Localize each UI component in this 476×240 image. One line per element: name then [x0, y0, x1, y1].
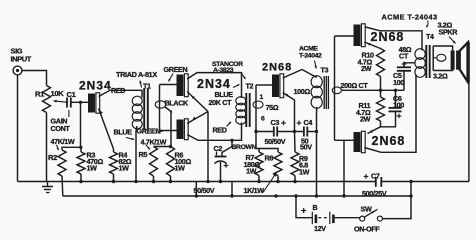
svg-text:100: 100 [393, 78, 404, 87]
svg-text:2N68: 2N68 [372, 134, 406, 148]
wire secondary bottom return to rail B [343, 140, 345, 196]
svg-text:T4: T4 [426, 32, 434, 41]
wire jack shield down to ground rail [17, 75, 19, 182]
speaker 3.2 ohm [451, 51, 455, 70]
Q5 emitter with arrow to R10 [364, 42, 380, 49]
svg-text:BLUE: BLUE [114, 128, 133, 137]
svg-text:T3: T3 [321, 66, 329, 75]
wire T2 secondary top to Q4 base [256, 84, 272, 86]
Q6 collector to T4 primary bottom [364, 75, 416, 153]
node base bias junction [79, 146, 82, 149]
wire C2 tap from Q3 collector line [230, 139, 233, 142]
wire T1 primary bottom BLUE down to rail [136, 126, 137, 182]
svg-text:R8: R8 [265, 153, 274, 162]
svg-text:R5: R5 [139, 150, 148, 159]
svg-text:10K: 10K [51, 89, 65, 98]
svg-text:RED: RED [213, 126, 227, 135]
wire speaker return down right edge [468, 82, 470, 182]
wire R5/R6 tops [154, 146, 172, 148]
Q4 emitter with arrow down to C4/R9 node [283, 93, 295, 132]
svg-text:ON-OFF: ON-OFF [354, 225, 380, 233]
svg-text:6: 6 [261, 116, 265, 123]
svg-text:50V: 50V [300, 143, 312, 152]
wire lower rail B [63, 195, 411, 197]
svg-text:+: + [297, 117, 302, 127]
svg-text:A-3823: A-3823 [213, 67, 234, 74]
resistor R4 82 ohm [110, 152, 118, 174]
wire T1 secondary bottom to Q3 base [160, 130, 177, 132]
node Q1 base junction [79, 101, 82, 104]
wire common emitters down to rail [207, 112, 209, 182]
svg-text:+: + [301, 205, 306, 215]
R11 bottom / Q6 emitter with arrow [368, 121, 381, 134]
wire T2 sec bottom node to R7/R8 tops [256, 149, 278, 153]
svg-text:ACME T-24043: ACME T-24043 [382, 13, 438, 22]
svg-text:+: + [281, 117, 286, 127]
svg-text:1W: 1W [119, 164, 130, 173]
svg-text:1W: 1W [175, 164, 186, 173]
svg-text:2N34: 2N34 [79, 79, 112, 93]
svg-text:4.7K/1W: 4.7K/1W [141, 137, 167, 146]
T3 core [323, 76, 325, 109]
wire T1 secondary top to Q2 base [160, 84, 177, 86]
wire C1 to Q1 base [71, 101, 88, 103]
svg-text:BROWN: BROWN [232, 144, 257, 151]
C1 lower tick mark [68, 110, 70, 117]
T3 secondary winding 200 ohm CT [334, 36, 336, 140]
T1 secondary winding with loop [159, 85, 161, 131]
svg-text:1: 1 [260, 94, 264, 101]
wire T4 secondary to speaker [433, 46, 452, 51]
T4 core [425, 45, 427, 78]
wire jack to R1 top [22, 71, 47, 86]
wire R2 bottom to lower rail [61, 176, 64, 196]
svg-text:+: + [364, 171, 369, 181]
wire T3 secondary top to Q5 base [335, 35, 354, 37]
Q1 emitter wire with arrow to R4 [99, 109, 114, 150]
Q1 collector wire RED to T1 primary top [99, 90, 142, 97]
svg-text:75Ω: 75Ω [266, 103, 279, 112]
svg-text:1K/1W: 1K/1W [244, 186, 265, 195]
wire Q1 base node down to R2/R3 junction [80, 102, 82, 147]
svg-text:C4: C4 [304, 118, 313, 127]
svg-text:GREEN: GREEN [164, 65, 188, 74]
stub C2 node to rail B [231, 182, 233, 197]
svg-text:BLACK: BLACK [165, 98, 190, 107]
svg-text:+: + [224, 160, 229, 170]
svg-text:2N68: 2N68 [262, 62, 292, 74]
Q3 emitter with arrow [187, 112, 208, 124]
resistor R11 4.7 ohm 2W [377, 97, 385, 121]
Q2 emitter with arrow [187, 92, 208, 112]
svg-text:R2: R2 [48, 153, 57, 162]
svg-text:2W: 2W [360, 114, 371, 123]
resistor R8 1K/1W bias pot [274, 152, 282, 176]
T1 core [143, 88, 145, 130]
wire rail B down to battery [296, 196, 312, 218]
svg-text:1W: 1W [246, 167, 257, 176]
svg-text:C2: C2 [214, 144, 223, 153]
transistor Q5 2N68 upper output [354, 25, 361, 47]
Q4 collector to T3 primary top [283, 70, 317, 79]
wire junction to R2 top [62, 147, 81, 150]
svg-text:100Ω: 100Ω [294, 87, 311, 96]
R1 wiper arrow to C1 [54, 101, 68, 103]
svg-text:+: + [397, 111, 402, 121]
T2 secondary winding with loop, 75 ohm [255, 85, 257, 149]
wire T3 secondary bottom to Q6 base [335, 139, 354, 141]
svg-text:3.2Ω: 3.2Ω [433, 72, 448, 81]
R8 wiper arrow [263, 173, 277, 193]
wire T3 center tap to R10/R11/C5/C6 [341, 89, 404, 91]
stub rail A to rail B [195, 182, 197, 197]
T2 primary winding [236, 97, 246, 105]
resistor R1 10K gain control potentiometer [43, 86, 51, 113]
svg-text:T-24042: T-24042 [299, 52, 322, 59]
svg-text:GREEN: GREEN [137, 126, 161, 135]
svg-text:1W: 1W [87, 164, 98, 173]
transistor Q6 2N68 lower output [354, 132, 361, 152]
resistor R10 4.7 ohm 2W [377, 49, 385, 77]
resistor R3 470 ohm [77, 152, 85, 174]
wire BLACK center tap down to R5/R6 node [165, 107, 172, 147]
wire T3 primary bottom down to C4 node and rail B [316, 107, 318, 196]
svg-text:C1: C1 [67, 90, 77, 99]
resistor R9 6.8 ohm [291, 152, 299, 176]
svg-text:200Ω CT: 200Ω CT [341, 81, 369, 90]
svg-text:INPUT: INPUT [11, 55, 32, 64]
connector J1 sig input jack [13, 66, 22, 75]
svg-text:47K/1W: 47K/1W [51, 137, 75, 146]
ground symbol [47, 182, 49, 187]
Q5 collector to T4 primary top [366, 27, 423, 51]
svg-text:12V: 12V [314, 224, 326, 232]
svg-text:SPKR: SPKR [439, 28, 459, 37]
svg-text:2W: 2W [361, 64, 372, 73]
svg-text:20K CT: 20K CT [209, 98, 233, 107]
Q3 collector to T2 primary bottom [187, 123, 241, 141]
svg-text:ACME: ACME [299, 45, 318, 52]
svg-text:1W: 1W [299, 167, 310, 176]
Q2 collector to T2 primary top [187, 73, 241, 98]
svg-text:50/50V: 50/50V [265, 137, 286, 146]
svg-text:CONT: CONT [51, 124, 71, 133]
svg-text:TRIAD A-81X: TRIAD A-81X [116, 70, 157, 79]
wire ground rail A [18, 181, 376, 183]
T3 primary winding [311, 76, 322, 88]
transformer T1 label with arrow [140, 81, 142, 88]
T4 primary winding [415, 49, 425, 60]
resistor R7 180 ohm [255, 152, 263, 176]
svg-text:RED: RED [111, 86, 125, 95]
resistor R6 100 ohm [167, 147, 175, 177]
T2 core [245, 93, 247, 127]
svg-text:2N68: 2N68 [371, 30, 405, 44]
wire R1 bottom to ground rail [46, 113, 48, 182]
svg-text:R1: R1 [35, 90, 45, 99]
wire switch to rails [382, 182, 411, 219]
svg-text:T2: T2 [246, 82, 254, 91]
wire bias/coupling line with C3 C4 [256, 131, 274, 133]
svg-text:SW: SW [361, 205, 372, 214]
transistor Q3 2N34 lower driver [177, 120, 184, 140]
svg-text:B: B [313, 205, 318, 212]
svg-text:C3: C3 [271, 118, 280, 127]
svg-text:50/50V: 50/50V [194, 186, 215, 195]
transistor Q2 2N34 upper driver [177, 75, 184, 97]
T1 primary winding [132, 96, 142, 105]
T4 secondary winding 3.2 ohm [432, 46, 434, 71]
rail junction dots [79, 180, 82, 183]
